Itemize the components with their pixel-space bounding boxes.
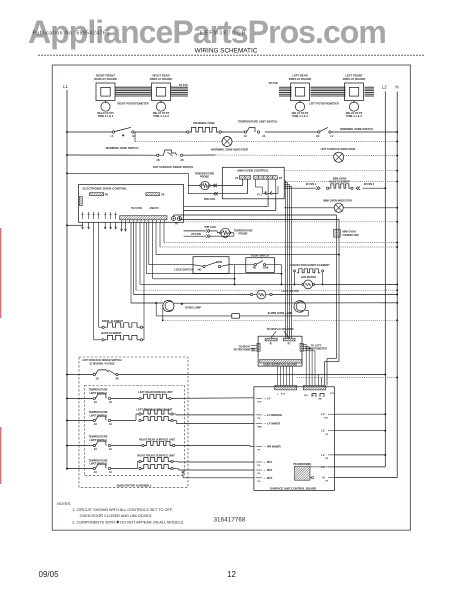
title WIRING SCHEMATIC (195, 47, 258, 54)
connector P5 EOC dots (172, 217, 182, 226)
connector P12 EOC bottom strip (120, 216, 167, 223)
svg-text:N: N (395, 85, 398, 90)
svg-text:L2: L2 (321, 429, 325, 433)
label warming zone switch (106, 146, 139, 150)
svg-text:BROIL ELEMENT: BROIL ELEMENT (102, 319, 124, 323)
relay symbols SUCB top (312, 393, 335, 397)
svg-text:COM: COM (216, 261, 222, 264)
relay K2 indicator (346, 102, 363, 118)
connector UIB right side (300, 343, 303, 351)
wire mini box right to N (284, 181, 398, 183)
svg-text:CONNECTOR: CONNECTOR (343, 234, 359, 237)
wires UIB to SUCB (278, 345, 316, 386)
wire EOC to mini oven nest1 (184, 199, 269, 207)
wire mini oven lamp branch (156, 303, 308, 318)
svg-text:2A: 2A (94, 471, 97, 474)
wire left front to SUCB bridge (173, 413, 254, 416)
svg-text:PWB 4-1 & 3: PWB 4-1 & 3 (292, 114, 308, 118)
connector P4 mini oven left (235, 176, 250, 180)
svg-text:M OVN 1: M OVN 1 (306, 183, 317, 186)
connector P9 EOC (146, 193, 165, 197)
wire mini oven bake row (284, 187, 386, 189)
svg-text:— RR INNER: — RR INNER (264, 444, 281, 448)
svg-text:L1: L1 (63, 84, 68, 89)
temperature probe PR1 (195, 171, 215, 189)
connector P1 UIB (265, 338, 277, 345)
hot surface sense switch (153, 150, 194, 169)
wire EOC P5 to SUCB nest outer (174, 215, 337, 385)
svg-text:LOCK MOTOR: LOCK MOTOR (282, 290, 299, 293)
warming zone indicator lamp (211, 137, 248, 152)
left front surface unit element (136, 407, 173, 421)
svg-text:— RF3: — RF3 (264, 476, 273, 480)
svg-text:— RF1: — RF1 (264, 460, 273, 464)
door switch (246, 254, 275, 272)
svg-text:FEFM387GCB: FEFM387GCB (200, 31, 247, 37)
mini oven lamp (268, 301, 306, 316)
wire N bus (396, 92, 398, 478)
wire bundle left stub to P1B (279, 87, 292, 96)
wire bundle right pair (115, 87, 152, 96)
hot surface indicator lamp (321, 147, 356, 162)
warming zone element (187, 121, 222, 133)
connector UIB bottom strip (260, 360, 302, 364)
svg-text:(2 SHOWN, 4 USED): (2 SHOWN, 4 USED) (90, 362, 115, 366)
svg-text:2A: 2A (94, 423, 97, 426)
mini oven bake element (306, 176, 375, 190)
label smoothtop assembly (116, 483, 151, 487)
svg-text:POTENTIOMETER: POTENTIOMETER (234, 349, 256, 352)
display board U4 left front (343, 74, 365, 103)
svg-text:FAN MOTOR: FAN MOTOR (301, 276, 316, 279)
svg-text:P4E: P4E (258, 426, 263, 429)
svg-text:DISPLAY BOARD: DISPLAY BOARD (150, 77, 172, 81)
svg-text:1A: 1A (109, 423, 112, 426)
svg-text:✱: ✱ (181, 302, 184, 306)
svg-text:TEMPERATURE LIMIT SWITCH: TEMPERATURE LIMIT SWITCH (238, 119, 277, 123)
svg-text:TO DISPLAY BOARDS: TO DISPLAY BOARDS (266, 327, 293, 331)
wire right front to SUCB RF3 (182, 471, 254, 478)
footer page number (227, 570, 236, 579)
svg-text:2. COMPONENTS WITH ✱ DO NOT: 2. COMPONENTS WITH ✱ DO NOT APPEAR ON AL… (72, 520, 184, 524)
wire left rear to SUCB (171, 397, 254, 400)
wire mini oven to UIB verticals (284, 181, 292, 339)
wire oven lamp to N (174, 302, 398, 304)
svg-text:MINI OVEN INDICATOR: MINI OVEN INDICATOR (323, 199, 352, 203)
footer date (39, 570, 60, 579)
svg-text:1B: 1B (156, 159, 159, 162)
svg-text:— RF2: — RF2 (264, 468, 273, 472)
svg-text:HOT SURFACE SENSE SWITCH: HOT SURFACE SENSE SWITCH (153, 165, 194, 169)
wire SUCB L2 pin bottom (335, 466, 386, 468)
svg-text:L2: L2 (321, 412, 325, 416)
temperature limit switch warming (238, 119, 277, 138)
svg-text:N: N (322, 476, 324, 480)
connector P2 mini oven right (254, 176, 283, 180)
temperature limit switch TLS4 (66, 459, 140, 474)
svg-text:1. CIRCUIT SHOWN WITH ALL CON: 1. CIRCUIT SHOWN WITH ALL CONTROLS SET T… (72, 508, 173, 512)
svg-text:P12 CON: P12 CON (131, 207, 142, 210)
connector P2 UIB (283, 338, 295, 345)
watermark AppliancePartsPros.com (28, 14, 386, 50)
wire EOC to mini oven nest2 (184, 199, 276, 211)
svg-text:PROBE: PROBE (200, 175, 209, 179)
svg-text:2B: 2B (115, 378, 118, 381)
wire L1 bus (66, 90, 68, 470)
wire SUCB L2 pin P12 (335, 413, 387, 415)
svg-text:12: 12 (227, 570, 236, 579)
mini oven indicator lamp (284, 199, 398, 213)
display board U1 right front (94, 74, 116, 103)
svg-text:OVEN DOOR CLOSED AND UNLOCKED.: OVEN DOOR CLOSED AND UNLOCKED. (80, 514, 153, 518)
svg-text:DISPLAY BOARD: DISPLAY BOARD (94, 77, 116, 81)
label right potentiometer (117, 101, 148, 105)
svg-text:LEFT POTENTIOMETER: LEFT POTENTIOMETER (309, 101, 339, 105)
wire door switch drop to fan row (275, 265, 283, 286)
temperature limit switch TLS1 (66, 389, 140, 404)
node N label (395, 85, 398, 90)
wire lock switch to door switch (229, 265, 246, 286)
svg-text:NOTES:: NOTES: (57, 502, 71, 506)
svg-text:Publication No: 5995424765: Publication No: 5995424765 (33, 31, 110, 37)
temperature probe PR2 (220, 228, 253, 237)
lock motor (250, 290, 298, 299)
svg-text:✱ MINI OVEN LAMP: ✱ MINI OVEN LAMP (268, 311, 293, 315)
svg-text:TO P1B: TO P1B (268, 81, 277, 85)
svg-text:WARMING ZONE SWITCH: WARMING ZONE SWITCH (106, 146, 139, 150)
svg-text:WARMING ZONE: WARMING ZONE (193, 121, 215, 125)
transformer SUCB (293, 463, 334, 480)
svg-text:NO: NO (198, 268, 202, 271)
wire EOC pin drop rows (121, 222, 399, 303)
node L1 label (63, 84, 68, 89)
wire row warming zone (66, 131, 398, 133)
svg-text:PROBE: PROBE (239, 233, 248, 236)
hot surface sense switch smoothtop (66, 358, 122, 380)
EOC left pin stubs (81, 212, 116, 229)
wire EOC row to N y222 (184, 221, 399, 223)
relay K3 indicator (292, 102, 309, 118)
wire probe1 to mini oven P4 (188, 179, 247, 201)
svg-text:NO: NO (253, 267, 257, 270)
svg-text:POTENTIOMETER: POTENTIOMETER (305, 348, 327, 351)
model number text (200, 31, 247, 37)
label TO P1B (268, 81, 277, 85)
svg-text:HOT SURFACE INDICATOR: HOT SURFACE INDICATOR (321, 147, 356, 151)
relay K5 indicator (153, 102, 170, 118)
svg-text:P6B CON: P6B CON (204, 198, 215, 201)
svg-text:RIGHT FRONT SURFACE UNIT: RIGHT FRONT SURFACE UNIT (137, 453, 175, 457)
wire temperature probe row (66, 170, 398, 186)
notes text (57, 502, 184, 525)
label to right potentiometer (234, 345, 257, 351)
wire EOC P5 to SUCB nest inner (180, 217, 340, 386)
svg-text:PWB 4-1 & 3: PWB 4-1 & 3 (346, 114, 362, 118)
schematic border frame (52, 65, 410, 530)
wire right front to SUCB RF2 (173, 469, 254, 471)
svg-text:WARMING ZONE INDICATOR: WARMING ZONE INDICATOR (211, 148, 248, 152)
svg-text:OVEN LAMP: OVEN LAMP (185, 305, 201, 309)
svg-text:FL1: FL1 (257, 193, 262, 196)
svg-text:LOCK SWITCH: LOCK SWITCH (174, 268, 192, 272)
fan motor (295, 276, 323, 289)
wire fan motor to N (324, 283, 398, 285)
wire right front to SUCB RF1 (173, 461, 254, 464)
svg-text:SMOOTHTOP ASSEMBLY: SMOOTHTOP ASSEMBLY (116, 483, 151, 487)
svg-text:SURFACE UNIT CONTROL BOARD: SURFACE UNIT CONTROL BOARD (270, 487, 316, 491)
bake element (94, 331, 144, 341)
wire broil bake feeder (143, 222, 145, 339)
connector SUCB top left (275, 385, 297, 395)
wire L2 bus (384, 92, 386, 467)
svg-text:WIRING SCHEMATIC: WIRING SCHEMATIC (195, 47, 258, 54)
wires mini oven internal (256, 179, 279, 199)
title underline (38, 54, 425, 56)
wire hot surface sense row (66, 154, 398, 156)
user interface board (258, 336, 302, 366)
svg-text:DISPLAY BOARD: DISPLAY BOARD (289, 77, 311, 81)
svg-text:RIGHT REAR SURFACE UNIT: RIGHT REAR SURFACE UNIT (139, 437, 175, 441)
wire bundle right stub to P10 (171, 87, 189, 96)
label to display boards (266, 327, 293, 338)
svg-text:1A: 1A (109, 401, 112, 404)
relay K4 indicator (97, 102, 114, 118)
left rear surface unit element (138, 390, 173, 399)
svg-text:PWB 4-1 & 3: PWB 4-1 & 3 (98, 114, 114, 118)
label left potentiometer (309, 101, 339, 105)
label to left potentiometer (305, 344, 327, 350)
svg-text:09/05: 09/05 (39, 570, 60, 579)
SUCB pin labels right (321, 412, 334, 483)
svg-text:2A: 2A (94, 401, 97, 404)
switch warming zone H2-L2 (316, 127, 373, 138)
connector SUCB top right (303, 385, 325, 400)
wire bake feeder (93, 222, 95, 339)
svg-text:L2: L2 (382, 85, 387, 90)
svg-text:RIGHT POTENTIOMETER: RIGHT POTENTIOMETER (117, 101, 148, 105)
wire bundle left pair (311, 87, 346, 96)
switch warming zone L1-H1 (111, 127, 137, 137)
svg-text:2B: 2B (180, 159, 183, 162)
display board U2 right rear (150, 74, 172, 103)
temperature limit switch TLS3 (66, 436, 143, 451)
wire lock motor to N (272, 294, 398, 296)
svg-text:— LF BRIDGE: — LF BRIDGE (264, 413, 283, 417)
surface unit control board (254, 387, 335, 491)
electronic oven control board (79, 185, 184, 223)
svg-text:WARMING ZONE SWITCH: WARMING ZONE SWITCH (340, 127, 373, 131)
svg-text:1A: 1A (109, 471, 112, 474)
wire SUCB L2 pin P4 (335, 454, 387, 456)
part number 316417768 (214, 517, 246, 524)
wire L1 to EOC pin (66, 224, 82, 226)
svg-text:TO P10: TO P10 (179, 83, 188, 87)
svg-text:P8 CON: P8 CON (191, 233, 201, 236)
svg-text:1A: 1A (109, 448, 112, 451)
svg-text:ELECTRONIC OVEN CONTROL: ELECTRONIC OVEN CONTROL (83, 186, 128, 190)
svg-text:PWB 4-1 & 3: PWB 4-1 & 3 (153, 114, 169, 118)
svg-text:— LF: — LF (264, 396, 271, 400)
svg-text:316417768: 316417768 (214, 517, 246, 524)
right front surface unit element (137, 453, 175, 469)
svg-text:L2: L2 (321, 453, 325, 457)
wire bundle left right stub (365, 87, 375, 96)
wire sense switch to SUCB (118, 374, 386, 386)
svg-text:P5B CON: P5B CON (204, 226, 215, 229)
wire row under UIB (297, 377, 398, 386)
fuse FL1 mini oven (257, 191, 275, 196)
wire warming indicator row (135, 132, 398, 142)
display board U3 left rear (289, 74, 311, 103)
svg-text:CONVECTION ASSIST ELEMENT: CONVECTION ASSIST ELEMENT (289, 263, 330, 267)
oven lamp (155, 300, 201, 311)
svg-text:LEFT REAR SURFACE UNIT: LEFT REAR SURFACE UNIT (138, 390, 173, 394)
red scan mark left edge upper (0, 228, 2, 318)
wire probe2 loop P8 CON (184, 226, 234, 238)
wire right rear to SUCB (175, 445, 254, 448)
wire broil feeder (98, 222, 100, 327)
wire SUCB L2 pin P6 (335, 430, 387, 432)
label P12 CON (131, 207, 159, 210)
svg-text:1B: 1B (95, 378, 98, 381)
publication number text (33, 31, 110, 37)
node L2 label (382, 85, 387, 90)
svg-text:— LF INNER: — LF INNER (264, 422, 280, 426)
smoothtop inner dashed box (84, 385, 184, 475)
red scan mark left edge lower (0, 427, 2, 484)
svg-text:DOOR SWITCH: DOOR SWITCH (251, 254, 269, 257)
connector mini oven (334, 229, 359, 237)
label TO P10 (179, 83, 188, 87)
temperature limit switch TLS2 (66, 411, 140, 426)
mini oven control board (222, 167, 284, 199)
svg-text:TRANSFORMER: TRANSFORMER (293, 463, 311, 466)
svg-text:1A: 1A (244, 135, 247, 138)
svg-text:MINI OVEN CONTROL: MINI OVEN CONTROL (237, 168, 269, 172)
lock switch (174, 257, 229, 274)
wire lower lamp row (163, 319, 398, 321)
svg-text:COM: COM (263, 267, 269, 270)
svg-text:AND P3: AND P3 (149, 207, 159, 210)
connector P6 EOC (90, 193, 109, 197)
svg-text:DISPLAY BOARD: DISPLAY BOARD (343, 77, 365, 81)
svg-text:2A: 2A (94, 448, 97, 451)
connector P1 EOC left (79, 197, 82, 206)
wire left front to SUCB inner (173, 421, 254, 424)
smoothtop assembly outer dashed box (79, 357, 188, 487)
wire SUCB N pin P5 (335, 477, 398, 479)
svg-text:BAKE ELEMENT: BAKE ELEMENT (101, 331, 122, 335)
svg-text:M OVN 2: M OVN 2 (364, 183, 375, 186)
svg-text:2A: 2A (262, 135, 265, 138)
connector UIB left side (257, 343, 260, 351)
convection assist element (289, 263, 330, 285)
wire oven lamp left drop (162, 307, 164, 321)
right rear surface unit element (139, 437, 175, 446)
SUCB pin labels left (256, 396, 283, 482)
broil element (99, 319, 145, 328)
